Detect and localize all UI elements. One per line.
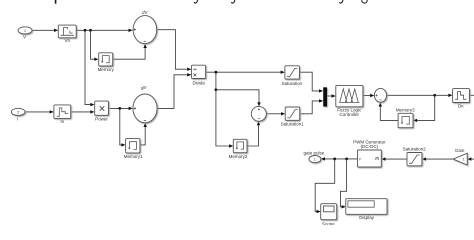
wire dV out to Divide top input bbox=[157, 30, 192, 71]
svg-text:Gain: Gain bbox=[455, 148, 465, 153]
block Saturation bbox=[285, 66, 300, 79]
sum dP bbox=[133, 94, 157, 123]
block PWM Generator (DC-DC) (flipped) bbox=[358, 150, 382, 167]
block Memory3 (flipped) bbox=[398, 113, 413, 127]
wire V to Vn bbox=[32, 29, 58, 32]
block Gain (flipped triangle) bbox=[453, 153, 467, 165]
block In bbox=[54, 105, 71, 119]
wire PWM P out to gate pulse bbox=[321, 157, 358, 160]
wire Fuzzy out to Sum2 bbox=[363, 94, 374, 97]
wire Sum2 out to Dn bbox=[387, 94, 453, 97]
node junction mid bbox=[215, 88, 218, 91]
wire Saturation2 out to PWM D input bbox=[381, 157, 407, 160]
input port I bbox=[11, 108, 25, 115]
wire Memory3 out up into Sum2 bottom bbox=[379, 102, 398, 120]
output port gate pulse bbox=[309, 156, 321, 163]
wire Add1 out to Saturation1 bbox=[266, 112, 285, 115]
svg-text:Saturation: Saturation bbox=[282, 81, 303, 86]
block Display bbox=[346, 199, 387, 215]
svg-text:(DC-DC): (DC-DC) bbox=[361, 144, 379, 149]
svg-text:V: V bbox=[23, 35, 26, 40]
wire dP out to Divide bottom input bbox=[157, 73, 191, 108]
wire Power out to dP plus bbox=[108, 107, 132, 110]
svg-text:Divide: Divide bbox=[192, 80, 205, 85]
block Divide bbox=[192, 65, 206, 78]
svg-text:Memory2: Memory2 bbox=[229, 154, 248, 159]
wire junction1 down to Power top input bbox=[85, 30, 95, 106]
node junction gate rail 2 bbox=[345, 158, 348, 161]
block Dn bbox=[453, 89, 470, 103]
sum Add1 bbox=[251, 106, 266, 121]
block Power (product) bbox=[95, 101, 109, 115]
svg-text:Controller: Controller bbox=[339, 112, 359, 117]
wire Saturation1 out to Mux bottom bbox=[300, 99, 323, 114]
wire Memory1 out up into dP minus bbox=[140, 123, 147, 145]
svg-text:Dn: Dn bbox=[458, 104, 464, 109]
svg-text:Vn: Vn bbox=[64, 38, 70, 43]
input port V bbox=[18, 27, 32, 34]
wire I to In bbox=[25, 110, 54, 113]
node junction D rail bbox=[433, 94, 436, 97]
svg-text:Display: Display bbox=[359, 215, 375, 220]
wire Memory2 out up into Add1 bottom bbox=[247, 121, 260, 146]
svg-text:In: In bbox=[60, 119, 64, 124]
svg-text:Saturation1: Saturation1 bbox=[281, 122, 305, 127]
wire In to Power bottom input bbox=[71, 110, 95, 113]
node junction V rail 2 bbox=[89, 29, 92, 32]
cropped caption descenders at top bbox=[56, 0, 368, 4]
wire junction1 down to Scope bbox=[315, 159, 335, 213]
wire Gain out to Saturation2 bbox=[422, 157, 453, 160]
node junction dP/dV rail bbox=[215, 71, 218, 74]
svg-text:2: 2 bbox=[17, 111, 19, 115]
wire Vn rail to dV bbox=[76, 29, 133, 32]
block Saturation1 bbox=[285, 107, 300, 120]
svg-text:1: 1 bbox=[314, 158, 316, 162]
wire junction down bbox=[215, 72, 217, 90]
block Vn bbox=[58, 25, 76, 38]
svg-text:Scope: Scope bbox=[322, 221, 335, 225]
svg-text:1: 1 bbox=[24, 29, 26, 33]
svg-text:I: I bbox=[17, 116, 18, 121]
svg-text:Saturation2: Saturation2 bbox=[403, 146, 427, 151]
block Scope bbox=[321, 204, 337, 220]
sum Sum2 bbox=[374, 88, 386, 102]
node junction gate rail 1 bbox=[333, 158, 336, 161]
wire junction2 down to Memory input bbox=[91, 30, 99, 61]
svg-text:Memory: Memory bbox=[98, 67, 115, 72]
block Saturation2 (flipped) bbox=[407, 153, 422, 166]
wire junction down to Memory3 right input bbox=[413, 95, 435, 122]
wire junction2 down to Display bbox=[341, 159, 347, 209]
block Fuzzy Logic Controller U1 bbox=[336, 85, 363, 106]
block Memory bbox=[99, 53, 113, 66]
sum dV bbox=[133, 16, 157, 44]
mux bbox=[323, 87, 327, 106]
wire Mux out to Fuzzy bbox=[327, 94, 336, 97]
svg-text:Power: Power bbox=[95, 117, 108, 122]
node junction P rail bbox=[118, 107, 121, 110]
wire Memory out up into dV minus bbox=[113, 44, 147, 59]
svg-text:Memory1: Memory1 bbox=[124, 154, 143, 159]
wire Saturation out to Mux top bbox=[300, 72, 324, 92]
block Memory1 bbox=[126, 139, 140, 153]
node junction V rail 1 bbox=[84, 29, 87, 32]
wire junction down to Memory1 bbox=[120, 108, 126, 146]
wire Dn out to right edge bbox=[470, 94, 474, 96]
svg-text:Memory3: Memory3 bbox=[396, 108, 415, 113]
svg-text:1: 1 bbox=[463, 158, 465, 162]
svg-text:dP: dP bbox=[141, 85, 147, 90]
svg-text:gate pulse: gate pulse bbox=[304, 151, 325, 156]
wire to Add1 top bbox=[216, 90, 261, 107]
wire junction down to Memory2 bbox=[216, 90, 233, 148]
block Memory2 bbox=[233, 139, 247, 152]
wire right edge into Gain bbox=[467, 157, 474, 160]
wire Divide out to Saturation bbox=[206, 71, 285, 74]
